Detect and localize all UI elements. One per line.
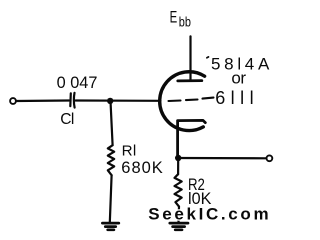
svg-text:0 047: 0 047 [57,74,98,92]
wire node K to output terminal [178,157,266,160]
svg-text:6lll: 6lll [215,88,253,108]
svg-text:bb: bb [179,13,191,29]
wire node K down to R2 [177,158,179,174]
output terminal J2 [267,155,273,161]
wire input to C1 [16,99,69,102]
tube V1 cathode [178,120,206,157]
node A junction dot [107,98,113,104]
ground (R2) [170,223,188,230]
tube V1 plate lead to Ebb [189,36,191,81]
svg-text:Rl: Rl [122,143,137,160]
resistor R1 [108,145,114,175]
wire R1 to ground [110,175,112,223]
svg-text:or: or [231,69,246,88]
svg-text:680K: 680K [121,159,163,177]
input terminal J1 [10,98,16,104]
tube V1 grid (dashed) [169,98,214,101]
tube V1 plate bar [178,79,202,82]
tube V1 envelope [160,72,205,131]
node K junction dot [175,155,181,161]
svg-text:Cl: Cl [60,111,74,128]
svg-text:E: E [170,7,178,26]
ground (R1) [102,223,118,230]
capacitor C1 [70,93,74,108]
svg-text:SeekIC.com: SeekIC.com [148,205,268,224]
wire C1 to node A and on to grid [76,99,161,102]
wire node A down to R1 [111,101,113,145]
leader tick before 5814A [207,56,209,59]
wire R2 to ground [177,207,180,223]
resistor R2 [175,174,182,206]
